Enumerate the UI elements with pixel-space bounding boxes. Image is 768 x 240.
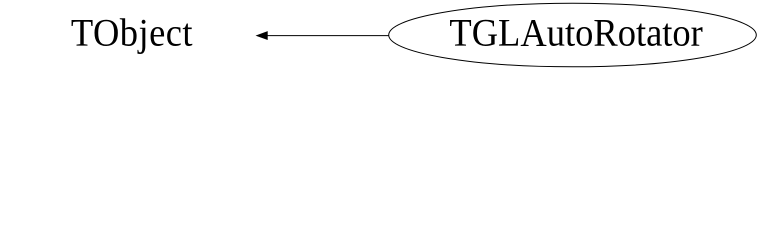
node TGLAutoRotator: ellipse <box>389 3 757 67</box>
arrowhead pointing at TObject <box>257 32 267 39</box>
svg-text:TGLAutoRotator: TGLAutoRotator <box>449 11 703 54</box>
class inheritance diagram: TGLAutoRotator -> TObject <box>0 0 768 71</box>
node TGLAutoRotator: label <box>449 11 703 54</box>
svg-text:TObject: TObject <box>71 11 193 54</box>
wire: edge line from ellipse to arrowhead <box>267 35 389 37</box>
node TObject (plain text) <box>71 11 193 54</box>
